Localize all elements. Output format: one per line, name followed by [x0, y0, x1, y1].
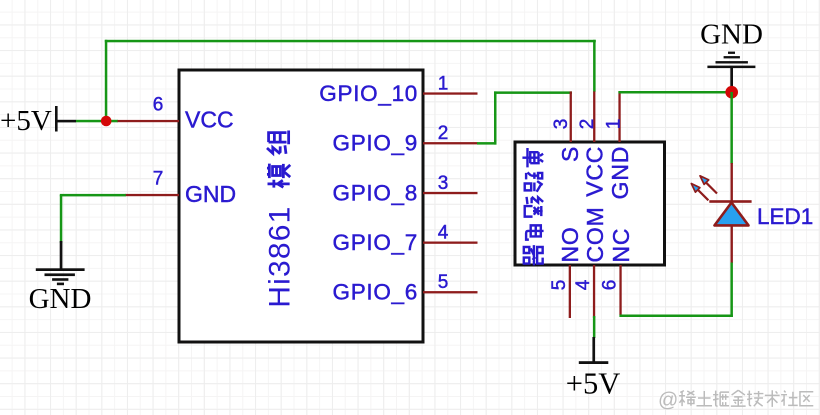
- pin 1 GPIO_10 of Hi3861: [319, 74, 477, 107]
- relay pin 1 GND: [604, 91, 634, 199]
- wire +5V to junction: [76, 120, 118, 123]
- LED LED1: [691, 163, 813, 263]
- svg-text:GND: GND: [700, 19, 763, 51]
- svg-text:COM: COM: [582, 206, 608, 262]
- svg-text:VCC: VCC: [582, 146, 608, 197]
- svg-text:LED1: LED1: [757, 204, 813, 229]
- svg-text:6: 6: [153, 95, 164, 116]
- wire relay GND to top-right ground junction: [618, 91, 732, 94]
- relay pin 3 S: [551, 91, 583, 162]
- junction dot right: [725, 86, 738, 99]
- pin 2 GPIO_9 of Hi3861: [333, 123, 478, 156]
- wire LED cathode down to NC: [619, 263, 733, 318]
- svg-text:5: 5: [549, 280, 570, 291]
- ground symbol GND (top right): [700, 19, 763, 93]
- ground symbol GND (bottom left): [29, 195, 92, 315]
- pin 7 GND of Hi3861: [125, 169, 236, 208]
- IC value Hi3861 module rotated text: [264, 131, 297, 308]
- relay pin 6 NC: [600, 228, 635, 315]
- pin 3 GPIO_8 of Hi3861: [333, 173, 478, 206]
- svg-text:GPIO_8: GPIO_8: [333, 181, 419, 206]
- svg-text:6: 6: [600, 280, 621, 291]
- relay value text single-channel relay rotated: [522, 148, 543, 265]
- svg-text:4: 4: [573, 279, 594, 290]
- svg-text:NO: NO: [557, 226, 583, 262]
- svg-text:1: 1: [438, 74, 449, 95]
- svg-text:VCC: VCC: [185, 107, 234, 133]
- svg-text:2: 2: [577, 119, 598, 130]
- svg-text:GPIO_9: GPIO_9: [333, 131, 419, 156]
- wire junction down to LED anode: [730, 92, 733, 164]
- svg-text:GPIO_6: GPIO_6: [333, 280, 419, 305]
- wire relay COM to +5V flag: [593, 316, 596, 338]
- pin 5 GPIO_6 of Hi3861: [333, 272, 478, 305]
- relay module body: [515, 142, 665, 265]
- svg-text:NC: NC: [608, 228, 634, 263]
- svg-text:5: 5: [438, 272, 449, 293]
- svg-text:GPIO_10: GPIO_10: [319, 81, 418, 106]
- power flag +5V (left): [0, 105, 76, 137]
- watermark: [658, 390, 813, 412]
- wire junction up left riser: [105, 40, 108, 121]
- svg-text:S: S: [557, 146, 583, 162]
- svg-text:3: 3: [438, 173, 449, 194]
- LED emission arrow 1: [691, 184, 708, 201]
- svg-text:+5V: +5V: [566, 367, 620, 401]
- svg-text:2: 2: [438, 123, 449, 144]
- LED emission arrow 2: [700, 176, 717, 194]
- svg-text:3: 3: [551, 119, 572, 130]
- svg-text:@: @: [658, 390, 678, 412]
- wire top horizontal run to relay VCC: [105, 40, 596, 43]
- IC body Hi3861 module: [179, 70, 423, 342]
- pin 4 GPIO_7 of Hi3861: [333, 223, 478, 256]
- wire GPIO_9 to relay S: [477, 91, 572, 144]
- svg-text:Hi3861: Hi3861: [264, 205, 297, 307]
- relay pin 4 COM: [573, 206, 608, 318]
- svg-text:1: 1: [604, 119, 625, 130]
- wire down to relay VCC pin: [593, 40, 596, 92]
- svg-text:GPIO_7: GPIO_7: [333, 230, 419, 255]
- svg-text:GND: GND: [185, 181, 236, 207]
- svg-text:4: 4: [438, 223, 449, 244]
- pin 6 VCC of Hi3861: [118, 95, 234, 133]
- svg-text:GND: GND: [29, 283, 92, 315]
- junction dot left: [101, 116, 112, 127]
- power flag +5V (bottom): [566, 337, 620, 401]
- svg-text:GND: GND: [607, 146, 633, 200]
- relay pin 2 VCC: [577, 91, 608, 196]
- wire Hi3861 GND pin to ground: [60, 194, 126, 197]
- relay pin 5 NO: [549, 226, 583, 318]
- svg-text:+5V: +5V: [0, 105, 52, 137]
- svg-text:7: 7: [153, 169, 164, 190]
